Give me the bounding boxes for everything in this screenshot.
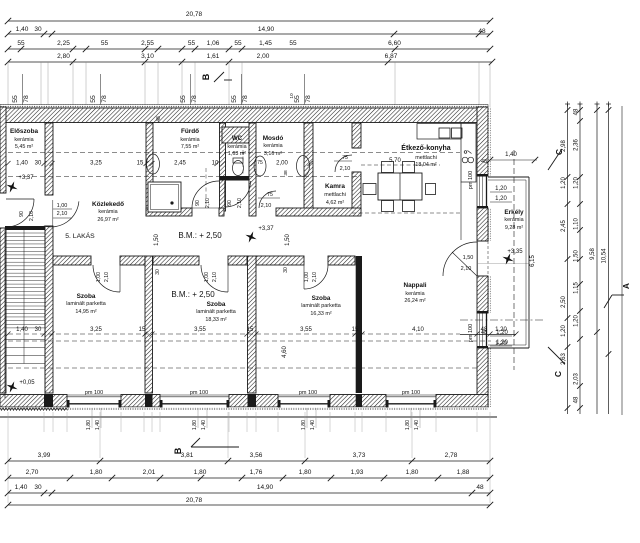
- wall W1 vertical lower: [45, 226, 53, 393]
- svg-text:laminált parketta: laminált parketta: [196, 309, 236, 315]
- left exterior wall lower hatched: [0, 228, 6, 393]
- svg-text:2,45: 2,45: [174, 161, 186, 167]
- svg-text:1,10: 1,10: [574, 218, 580, 230]
- svg-text:9,28 m²: 9,28 m²: [505, 225, 523, 231]
- kitchen niche edge line: [460, 182, 462, 240]
- svg-text:2,10: 2,10: [205, 198, 211, 208]
- svg-text:38: 38: [283, 170, 289, 176]
- bottom dim row 3: 1,40/30/14,90/48: [8, 492, 490, 494]
- svg-text:48: 48: [478, 28, 486, 35]
- chain H2 ticks: [6, 332, 11, 337]
- svg-text:WC: WC: [232, 135, 243, 142]
- svg-text:mettlachi: mettlachi: [324, 192, 346, 198]
- svg-text:1,50: 1,50: [285, 234, 291, 246]
- svg-text:55: 55: [90, 95, 97, 103]
- svg-text:2,45: 2,45: [561, 220, 567, 232]
- svg-text:Erkély: Erkély: [504, 209, 524, 216]
- svg-text:48: 48: [574, 396, 580, 403]
- door Szoba3 arc: [304, 265, 328, 289]
- svg-text:3,25: 3,25: [90, 327, 102, 333]
- svg-text:pm 100: pm 100: [299, 390, 317, 396]
- ground line below building: [0, 416, 497, 418]
- door axis dashed lines: [205, 168, 207, 207]
- svg-text:2,10: 2,10: [57, 211, 68, 217]
- door Kamra arc: [335, 155, 352, 172]
- wall W9 Szoba3/Nappali solid: [356, 256, 362, 393]
- svg-text:48: 48: [476, 484, 484, 491]
- svg-text:1,40: 1,40: [310, 420, 316, 430]
- svg-text:15: 15: [137, 161, 144, 167]
- right dim column 2: [579, 104, 581, 414]
- svg-text:Nappali: Nappali: [403, 282, 426, 289]
- kitchen counter top run: [417, 124, 461, 140]
- svg-text:6,87: 6,87: [385, 53, 398, 60]
- svg-text:1,80: 1,80: [406, 469, 419, 476]
- svg-text:75: 75: [342, 155, 348, 161]
- svg-text:B.M.: + 2,50: B.M.: + 2,50: [171, 290, 215, 299]
- kitchen right counter with cooktop: [461, 124, 476, 183]
- szoba top wall segments: [53, 256, 91, 265]
- svg-text:7,55 m²: 7,55 m²: [181, 144, 199, 150]
- svg-text:B: B: [201, 73, 211, 80]
- right dim column 1: [567, 104, 569, 414]
- door stair-to-Eloszoba arc: [6, 199, 34, 227]
- svg-text:1,00: 1,00: [96, 272, 102, 282]
- svg-text:2,10: 2,10: [312, 272, 318, 282]
- svg-text:14,90: 14,90: [257, 484, 274, 491]
- svg-text:2,50: 2,50: [561, 296, 567, 308]
- svg-text:1,00: 1,00: [204, 272, 210, 282]
- dashed construction line y=368: [8, 367, 477, 369]
- right exterior wall hatch 1: [477, 107, 488, 176]
- wall junction ticks on top wall: [45, 107, 47, 123]
- bottom exterior wall hatched pieces: [0, 395, 67, 408]
- svg-text:pm 100: pm 100: [190, 390, 208, 396]
- svg-text:55: 55: [234, 40, 242, 47]
- wall W1 vertical x45-53 upper (Eloszoba/corridor): [45, 123, 53, 195]
- stair treads lower wider: [5, 339, 45, 341]
- svg-text:1,80: 1,80: [405, 420, 411, 430]
- svg-text:1,80: 1,80: [299, 469, 312, 476]
- svg-text:10,54: 10,54: [602, 248, 608, 264]
- balcony door threshold gray line: [478, 263, 529, 265]
- svg-text:1,00: 1,00: [57, 203, 68, 209]
- door Szoba1 arc: [93, 265, 120, 292]
- svg-text:2,78: 2,78: [445, 452, 458, 459]
- bottom dim row 4 overall 20,78: [8, 504, 490, 506]
- wall W6 door gap: [352, 147, 361, 149]
- svg-text:kerámia: kerámia: [405, 291, 424, 297]
- svg-text:15: 15: [247, 327, 254, 333]
- svg-text:A: A: [621, 283, 631, 289]
- svg-text:1,20: 1,20: [496, 340, 508, 346]
- svg-text:1,00: 1,00: [304, 272, 310, 282]
- svg-text:1,76: 1,76: [250, 469, 263, 476]
- svg-text:78: 78: [242, 95, 249, 103]
- svg-text:90: 90: [195, 200, 201, 206]
- svg-text:1,40: 1,40: [16, 327, 28, 333]
- svg-text:4,10: 4,10: [412, 327, 424, 333]
- svg-text:Kamra: Kamra: [325, 183, 345, 190]
- bath strip bottom wall pier b: [219, 208, 224, 216]
- right exterior wall hatch 4: [477, 348, 488, 407]
- svg-text:+3,37: +3,37: [258, 226, 274, 232]
- right exterior wall hatch 3: [477, 276, 488, 313]
- svg-text:48: 48: [156, 116, 162, 122]
- svg-text:Szoba: Szoba: [77, 293, 96, 300]
- dimension row top-2: 1,40 / 30 / 14,90 / 48: [8, 33, 490, 35]
- svg-text:2,03: 2,03: [574, 373, 580, 385]
- stair walk line vertical: [23, 230, 25, 364]
- svg-text:Étkező-konyha: Étkező-konyha: [401, 143, 451, 152]
- wall W3 WC left hatched: [220, 123, 226, 211]
- svg-text:1,40: 1,40: [201, 420, 207, 430]
- svg-text:5. LAKÁS: 5. LAKÁS: [65, 231, 95, 240]
- door Szoba2 arc: [201, 265, 228, 292]
- svg-text:kerámia: kerámia: [504, 217, 523, 223]
- svg-text:1,45: 1,45: [259, 40, 272, 47]
- svg-text:kerámia: kerámia: [180, 137, 199, 143]
- svg-text:2,70: 2,70: [26, 469, 39, 476]
- left exterior wall door gap jambs: [0, 192, 6, 194]
- svg-text:1,40: 1,40: [414, 420, 420, 430]
- right exterior wall balcony door gap: [477, 240, 488, 242]
- svg-text:3,55: 3,55: [300, 327, 312, 333]
- bottom exterior wall insulation speckle band: [0, 407, 488, 410]
- wall W7 Szoba1/Szoba2: [145, 256, 153, 393]
- dining chairs: [382, 162, 394, 173]
- svg-text:4,62 m²: 4,62 m²: [326, 200, 344, 206]
- svg-text:2,10: 2,10: [212, 272, 218, 282]
- svg-text:kerámia: kerámia: [14, 137, 33, 143]
- svg-text:2,10: 2,10: [340, 166, 351, 172]
- svg-text:2,00: 2,00: [257, 53, 270, 60]
- toilet WC: [233, 161, 244, 176]
- svg-text:78: 78: [305, 95, 312, 103]
- svg-text:15: 15: [139, 327, 146, 333]
- dimension row top-3: 55 / 2,25 / 55 / 2,55 / 55 / 1,06 / 55 / 1,45 / 55 / 6,60: [8, 48, 490, 50]
- svg-text:26,24 m²: 26,24 m²: [404, 298, 425, 304]
- svg-text:1,80: 1,80: [301, 420, 307, 430]
- svg-text:Mosdó: Mosdó: [263, 135, 284, 142]
- door WC arc: [225, 181, 251, 207]
- svg-text:1,50: 1,50: [154, 234, 160, 246]
- balcony Erkely outline: [488, 176, 529, 178]
- svg-text:2,10: 2,10: [29, 211, 35, 221]
- svg-text:laminált parketta: laminált parketta: [301, 303, 341, 309]
- svg-text:3,25: 3,25: [90, 161, 102, 167]
- svg-text:55: 55: [101, 40, 109, 47]
- bottom dim row 2: 2,70/1,80/2,01/1,80/1,76/1,80/1,93/1,80/1,88: [8, 477, 490, 479]
- svg-text:1,80: 1,80: [194, 469, 207, 476]
- svg-text:3,73: 3,73: [353, 452, 366, 459]
- svg-text:1,20: 1,20: [495, 186, 507, 192]
- svg-text:75: 75: [267, 192, 273, 198]
- svg-text:kerámia: kerámia: [227, 144, 246, 150]
- svg-text:55: 55: [289, 40, 297, 47]
- svg-text:kerámia: kerámia: [263, 143, 282, 149]
- door Eloszoba-corridor arc: [44, 201, 79, 227]
- svg-text:2,10: 2,10: [104, 272, 110, 282]
- svg-text:1,63 m²: 1,63 m²: [228, 151, 246, 157]
- svg-text:20,78: 20,78: [186, 497, 203, 504]
- washbasin Furdo oval: [147, 154, 160, 174]
- dimension row top-1 overall 20,78: [8, 20, 490, 22]
- partition stubs crossing bottom wall: [44, 394, 53, 407]
- WC duct shaft hatched: [222, 127, 250, 143]
- svg-text:1,20: 1,20: [574, 177, 580, 189]
- balcony section dash line: [513, 150, 515, 370]
- dining table: [378, 173, 422, 200]
- dashed chain H2 y=334: [8, 333, 460, 335]
- svg-text:C: C: [553, 371, 563, 377]
- stair side line: [4, 230, 6, 398]
- svg-text:1,50: 1,50: [463, 255, 474, 261]
- svg-text:30: 30: [34, 26, 42, 33]
- svg-text:18,04 m²: 18,04 m²: [415, 162, 436, 168]
- svg-text:Szoba: Szoba: [207, 301, 226, 308]
- svg-text:1,80: 1,80: [90, 469, 103, 476]
- bottom dim row 1: 3,99/3,81/3,56/3,73/2,78: [8, 460, 490, 462]
- right dim column 3 9,58: [596, 104, 598, 414]
- svg-text:90: 90: [19, 211, 25, 217]
- svg-text:48: 48: [574, 108, 580, 115]
- dashed kitchen lines: [361, 164, 440, 166]
- door Nappali-Erkely arc: [443, 242, 477, 276]
- svg-text:1,93: 1,93: [351, 469, 364, 476]
- svg-text:55: 55: [17, 40, 25, 47]
- svg-text:55: 55: [294, 95, 301, 103]
- bottom extension lines: [43, 412, 45, 432]
- svg-text:Fürdő: Fürdő: [181, 128, 199, 135]
- wall W5 Mosdo/Kamra: [304, 123, 313, 211]
- svg-text:1,20: 1,20: [574, 315, 580, 327]
- svg-text:16,33 m²: 16,33 m²: [310, 311, 331, 317]
- svg-text:55: 55: [12, 95, 19, 103]
- bottom wall window glazing lines: [67, 394, 121, 396]
- svg-text:15: 15: [352, 327, 359, 333]
- svg-text:20,78: 20,78: [186, 11, 203, 18]
- svg-text:26,97 m²: 26,97 m²: [97, 217, 118, 223]
- svg-text:1,40: 1,40: [505, 152, 517, 158]
- svg-text:pm 100: pm 100: [468, 171, 474, 189]
- svg-text:78: 78: [101, 95, 108, 103]
- svg-text:30: 30: [34, 484, 42, 491]
- svg-text:kerámia: kerámia: [98, 209, 117, 215]
- right dim column 4 10,54: [608, 104, 610, 414]
- dash-dot window axis line y=320: [460, 319, 545, 321]
- svg-text:5,45 m²: 5,45 m²: [15, 144, 33, 150]
- svg-text:2,36: 2,36: [574, 139, 580, 151]
- svg-text:30: 30: [35, 327, 42, 333]
- svg-text:laminált parketta: laminált parketta: [66, 301, 106, 307]
- wall W1 door gap 195-226: [45, 194, 53, 196]
- section line A vertical: [621, 106, 623, 415]
- door Mosdo arc: [259, 191, 276, 208]
- washbasin Mosdo right: [297, 156, 310, 177]
- wall W8 Szoba2/Szoba3: [248, 256, 257, 393]
- svg-text:pm 100: pm 100: [85, 390, 103, 396]
- washbasin Mosdo left: [254, 156, 266, 176]
- svg-text:1,50: 1,50: [574, 250, 580, 262]
- svg-text:1,06: 1,06: [207, 40, 220, 47]
- svg-text:55: 55: [188, 40, 196, 47]
- svg-text:4,60: 4,60: [282, 346, 288, 358]
- bathtub/shower Furdo: [148, 182, 181, 212]
- wall W6 lower: [352, 172, 361, 211]
- serrated ground edge under bottom-left wall: [0, 408, 68, 411]
- svg-text:78: 78: [23, 95, 30, 103]
- svg-text:48: 48: [481, 159, 487, 165]
- svg-text:2,10: 2,10: [237, 198, 243, 208]
- svg-text:90: 90: [227, 200, 233, 206]
- right exterior wall insulation speckle: [488, 107, 490, 176]
- svg-text:14,95 m²: 14,95 m²: [75, 309, 96, 315]
- wall W2 vertical Furdo left: [146, 123, 153, 216]
- svg-text:1,80: 1,80: [86, 420, 92, 430]
- svg-text:1,40: 1,40: [16, 161, 28, 167]
- dashed chain H1 upper line y=152.3: [8, 151, 460, 153]
- WC bottom wall black: [220, 176, 250, 181]
- svg-text:Szoba: Szoba: [312, 295, 331, 302]
- dashed construction line y=341: [8, 340, 491, 342]
- svg-text:3,56: 3,56: [250, 452, 263, 459]
- svg-text:9,58: 9,58: [590, 248, 596, 260]
- svg-text:1,20: 1,20: [561, 325, 567, 337]
- svg-text:mettlachi: mettlachi: [415, 155, 437, 161]
- svg-text:2,01: 2,01: [143, 469, 156, 476]
- svg-text:78: 78: [191, 95, 198, 103]
- balcony top dim 1,40: [490, 159, 537, 161]
- dashed chain H1 lower line y=176.5: [8, 176, 361, 178]
- svg-text:B: B: [173, 447, 183, 454]
- stair top landing edge: [5, 226, 45, 230]
- right exterior wall window 1 (pm 100): [476, 176, 478, 208]
- svg-text:5,70: 5,70: [389, 158, 401, 164]
- top exterior wall insulation speckle band: [0, 105, 488, 109]
- svg-text:1,20: 1,20: [495, 196, 507, 202]
- svg-text:1,15: 1,15: [574, 282, 580, 294]
- svg-text:3,99: 3,99: [38, 452, 51, 459]
- svg-text:Előszoba: Előszoba: [10, 128, 38, 135]
- kitchen sink squares: [439, 128, 450, 138]
- svg-text:2,25: 2,25: [57, 40, 70, 47]
- dimension row top-4: 2,80 / 3,10 / 1,61 / 2,00 / 6,87: [8, 61, 492, 63]
- svg-text:30: 30: [283, 267, 289, 273]
- svg-text:6,60: 6,60: [388, 40, 401, 47]
- svg-text:1,20: 1,20: [561, 177, 567, 189]
- door Furdo arc: [192, 181, 219, 208]
- svg-text:1,40: 1,40: [16, 26, 29, 33]
- wall W6 Kamra/kitchen upper: [352, 123, 361, 148]
- svg-text:1,40: 1,40: [15, 484, 28, 491]
- svg-text:2,00: 2,00: [276, 161, 288, 167]
- svg-text:Közlekedő: Közlekedő: [92, 201, 124, 208]
- svg-text:6,15: 6,15: [530, 255, 536, 267]
- svg-text:48: 48: [481, 330, 487, 336]
- svg-text:30: 30: [35, 161, 42, 167]
- svg-text:3,55: 3,55: [194, 327, 206, 333]
- svg-text:14,90: 14,90: [258, 26, 275, 33]
- svg-text:+3,37: +3,37: [18, 175, 34, 181]
- top exterior wall hatched: [0, 108, 488, 123]
- right exterior wall hatch 2: [477, 208, 488, 241]
- svg-text:+0,05: +0,05: [19, 380, 35, 386]
- svg-text:10: 10: [289, 93, 295, 99]
- svg-text:2,55: 2,55: [141, 40, 154, 47]
- bath strip bottom wall segment a: [146, 208, 192, 216]
- svg-text:55: 55: [180, 95, 187, 103]
- svg-text:1,20: 1,20: [496, 330, 508, 336]
- svg-text:55: 55: [231, 95, 238, 103]
- stair treads upper flight: [5, 232, 45, 234]
- svg-text:pm 100: pm 100: [468, 324, 474, 342]
- svg-text:3,10: 3,10: [141, 53, 154, 60]
- bath strip bottom wall segment c (Mosdo-Kamra): [276, 208, 361, 216]
- tick crosses at column tops: [565, 103, 570, 105]
- svg-text:pm 100: pm 100: [402, 390, 420, 396]
- svg-text:B.M.: + 2,50: B.M.: + 2,50: [178, 231, 222, 240]
- wall W4 WC/Mosdo: [249, 123, 256, 216]
- svg-text:2,80: 2,80: [57, 53, 70, 60]
- svg-text:1,80: 1,80: [192, 420, 198, 430]
- svg-text:75: 75: [257, 160, 263, 166]
- svg-text:1,61: 1,61: [207, 53, 220, 60]
- svg-text:2,10: 2,10: [261, 203, 272, 209]
- chain H1 ticks: [6, 161, 11, 166]
- svg-text:1,88: 1,88: [457, 469, 470, 476]
- svg-text:3,16 m²: 3,16 m²: [264, 151, 282, 157]
- svg-text:30: 30: [155, 269, 161, 275]
- left exterior wall upper hatched: [0, 107, 6, 193]
- extension lines from top wall to dimension rows: [7, 62, 9, 107]
- right exterior wall window 2 (pm 100): [476, 313, 478, 348]
- svg-text:18,33 m²: 18,33 m²: [205, 317, 226, 323]
